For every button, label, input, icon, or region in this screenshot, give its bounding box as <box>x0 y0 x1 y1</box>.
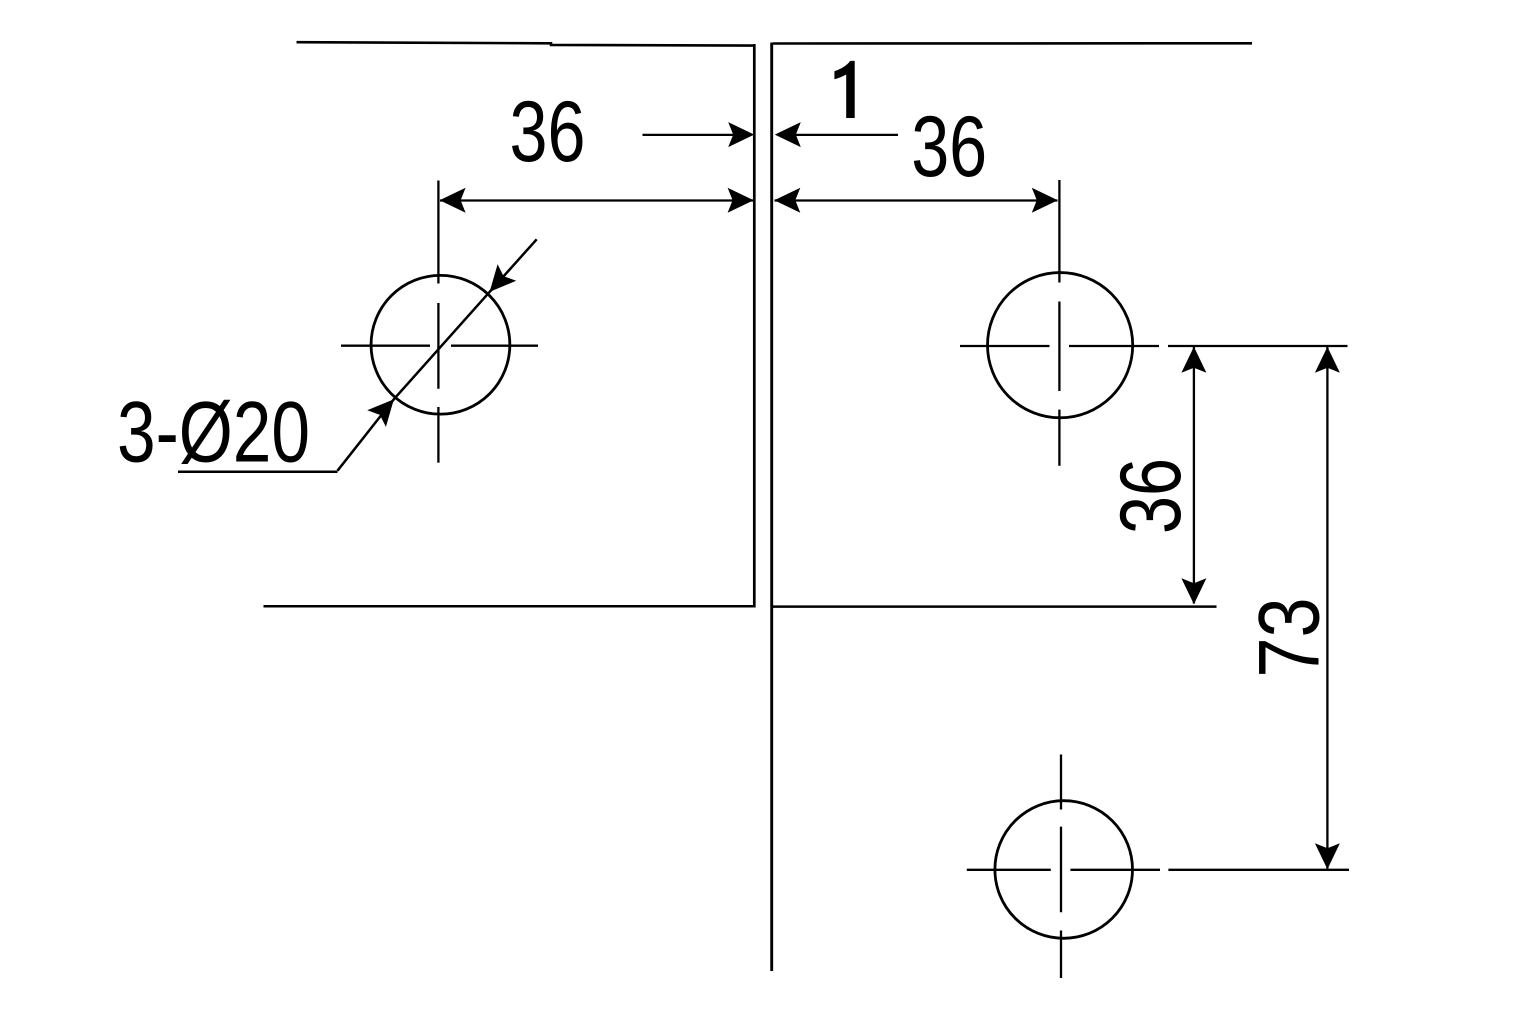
centerline horizontal of top right hole + extension to dimension lines <box>960 345 1348 347</box>
diameter arrow upper right <box>490 264 517 292</box>
centerline horizontal of bottom hole + extension to 73 dimension <box>967 869 1349 871</box>
centerline horizontal of left hole <box>341 345 538 347</box>
left plate bottom edge <box>264 605 755 608</box>
centerline vertical of left hole <box>437 181 439 463</box>
dimension 1 right arrow with tail <box>775 122 898 147</box>
leader underline for 3-O20 <box>178 470 338 473</box>
vertical dimension 36: line <box>1193 347 1195 604</box>
diameter arrow lower left <box>367 399 394 427</box>
hole circle left <box>371 275 510 414</box>
dimension 36 left plate: right arrow <box>728 188 754 213</box>
vertical dimension 73: bottom arrow <box>1315 843 1340 869</box>
dimension 36 right plate: left arrow <box>774 188 800 213</box>
dimension 36 left plate: left arrow <box>440 188 466 213</box>
svg-text:73: 73 <box>1242 598 1338 678</box>
hole circle top right <box>988 273 1133 418</box>
dimension 36 left plate: line <box>440 199 754 201</box>
centerline vertical of bottom hole <box>1060 755 1062 979</box>
centerline vertical of top right hole <box>1058 180 1060 466</box>
svg-text:36: 36 <box>911 99 987 195</box>
vertical dimension 73: line <box>1326 347 1328 869</box>
leader diagonal line through left hole <box>338 239 537 470</box>
dimension 36 right plate: line <box>775 199 1058 201</box>
svg-text:36: 36 <box>1103 458 1199 534</box>
left plate top edge <box>297 42 755 45</box>
dimension 36 right plate: right arrow <box>1032 188 1058 213</box>
svg-text:3-Ø20: 3-Ø20 <box>117 385 310 481</box>
svg-text:36: 36 <box>510 84 586 180</box>
vertical dimension 36: bottom arrow <box>1181 578 1206 604</box>
right plate top edge <box>773 42 1252 45</box>
right plate bottom edge <box>773 605 1217 608</box>
dimension text 1 <box>834 61 854 118</box>
hole circle bottom right <box>995 801 1133 939</box>
right plate left vertical edge <box>770 43 773 972</box>
dimension 1 left arrow with tail <box>643 122 755 147</box>
left plate right vertical edge <box>753 44 756 608</box>
vertical dimension 73: top arrow <box>1315 347 1340 373</box>
vertical dimension 36: top arrow <box>1181 347 1206 373</box>
